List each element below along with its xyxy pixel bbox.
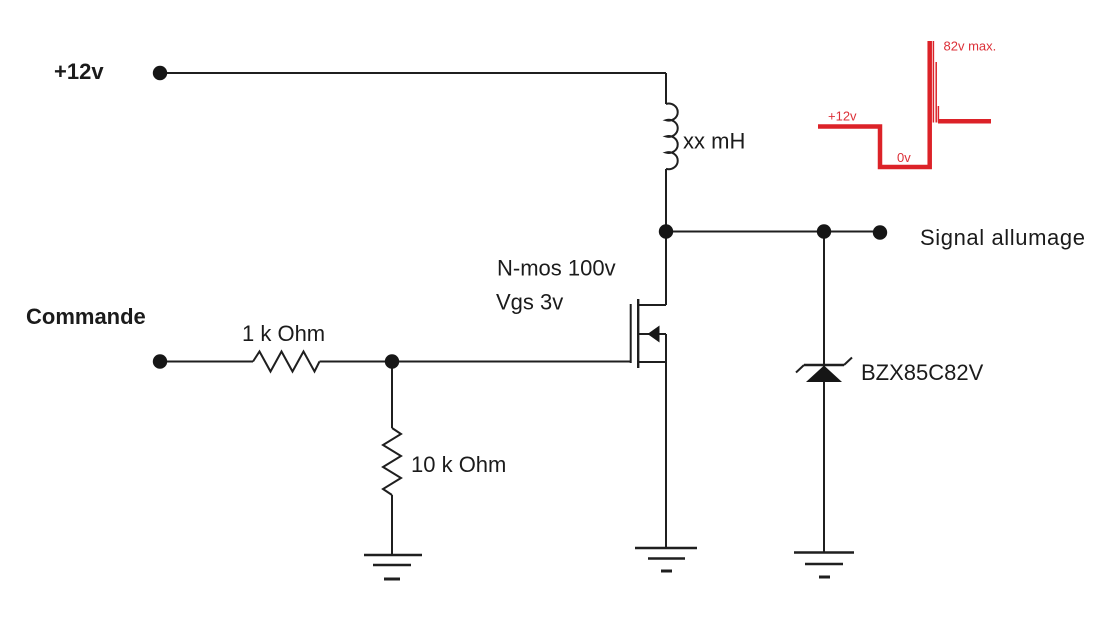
svg-text:1 k Ohm: 1 k Ohm — [242, 321, 325, 346]
svg-text:Commande: Commande — [26, 304, 146, 329]
svg-text:0v: 0v — [897, 150, 911, 165]
svg-text:Vgs 3v: Vgs 3v — [496, 290, 563, 315]
svg-text:BZX85C82V: BZX85C82V — [861, 360, 984, 385]
svg-text:N-mos 100v: N-mos 100v — [497, 256, 616, 281]
svg-text:xx mH: xx mH — [683, 129, 745, 154]
svg-text:Signal allumage: Signal allumage — [920, 225, 1086, 250]
svg-text:+12v: +12v — [54, 59, 104, 84]
svg-text:10 k Ohm: 10 k Ohm — [411, 452, 506, 477]
svg-text:82v max.: 82v max. — [944, 39, 997, 54]
svg-text:+12v: +12v — [828, 109, 857, 124]
